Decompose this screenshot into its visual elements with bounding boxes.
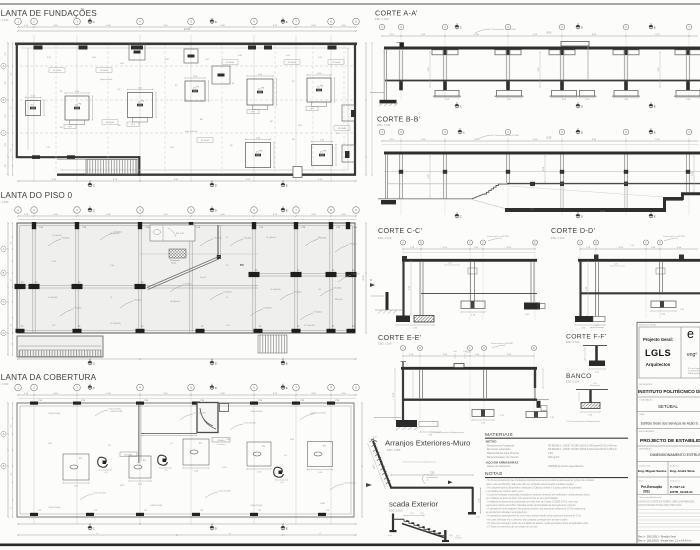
left footing block section A-A'	[380, 100, 397, 104]
F-F' top dims	[591, 327, 603, 329]
leader note section B-B'	[478, 135, 494, 139]
tie beam dashed rows plan 1	[20, 65, 354, 67]
mid footing section D-D'	[651, 301, 676, 308]
F-F' top line	[583, 345, 607, 347]
lower slab section B-B'	[505, 208, 665, 212]
left footing block section B-B'	[381, 200, 396, 204]
svg-text:LG30 (15x30): LG30 (15x30)	[244, 423, 257, 425]
wall: foundations step vertical	[138, 156, 140, 176]
escada step blobs	[406, 520, 409, 522]
F-F' dims	[584, 348, 586, 360]
slab step right 1 section B-B'	[663, 197, 666, 212]
svg-text:engº: engº	[687, 352, 697, 358]
mid stub block section B-B'	[530, 182, 535, 186]
right dim line plan 3	[361, 403, 363, 517]
left dim line 2 plan 3	[12, 403, 14, 517]
svg-text:D: D	[581, 214, 583, 218]
svg-text:C: C	[460, 214, 462, 218]
svg-text:E: E	[286, 526, 288, 530]
svg-text:0.25: 0.25	[593, 383, 597, 385]
cut marks section B-B' top	[458, 128, 465, 134]
sheet top rule	[0, 3, 700, 5]
svg-text:L30x(05): L30x(05)	[62, 238, 70, 240]
construction grid verticals plan 1	[33, 35, 35, 182]
svg-text:Eng. Miguel Santos: Eng. Miguel Santos	[638, 469, 667, 473]
svg-text:0.45: 0.45	[548, 452, 553, 455]
svg-text:L30x(05): L30x(05)	[264, 308, 272, 310]
left wall section A-A'	[383, 49, 385, 100]
svg-text:- No Dimensionamento das Funda: - No Dimensionamento das Fundações consi…	[486, 479, 595, 482]
banco top line	[576, 389, 608, 391]
svg-text:LOCALIZAÇÃO: LOCALIZAÇÃO	[639, 399, 653, 402]
svg-text:C: C	[93, 386, 95, 390]
dim line section C-C'	[403, 248, 535, 250]
svg-text:L30x(05): L30x(05)	[184, 284, 192, 286]
floor level line left section B-B'	[387, 183, 507, 185]
height dims section A-A'	[429, 52, 431, 87]
right dim line plan 1	[365, 43, 367, 175]
muro right dim	[480, 488, 482, 513]
svg-text:C: C	[93, 183, 95, 187]
IS wall end blob piso 0	[217, 255, 221, 259]
slab section A-A'	[384, 47, 700, 50]
left ground line section E-E'	[374, 417, 401, 419]
svg-text:OBRA: OBRA	[639, 413, 645, 416]
svg-text:L6 (30x45): L6 (30x45)	[48, 297, 58, 299]
skylight box plan 3	[197, 403, 218, 433]
construction verticals section A-A'	[400, 31, 402, 100]
footing F1 mid-left	[26, 101, 41, 116]
svg-text:ESC. 1:100: ESC. 1:100	[566, 380, 580, 384]
bottom row wall columns plan 1	[32, 155, 40, 159]
wall: foundations bottom	[57, 173, 356, 175]
annotation leaders piso 0	[48, 239, 61, 246]
mid raised slab section B-B'	[663, 197, 683, 201]
svg-text:PROJECTO DE ESTABILIDADE: PROJECTO DE ESTABILIDADE	[640, 438, 700, 444]
svg-text:- A cota de fundação encontrad: - A cota de fundação encontrada indicada…	[486, 493, 590, 496]
column 1 section D-D'	[595, 261, 597, 316]
roof annotation leaders plan 3	[95, 410, 108, 416]
mid beam right piso 0	[258, 273, 353, 275]
muro foot	[468, 512, 476, 515]
columns piso 0 top row	[32, 222, 36, 229]
svg-text:- As cotas definidas em m deve: - As cotas definidas em m devendo não ca…	[486, 518, 568, 521]
svg-text:i=2%: i=2%	[222, 467, 227, 469]
svg-text:D: D	[581, 130, 583, 134]
column stubs below slab section A-A'	[399, 81, 403, 90]
svg-text:D: D	[215, 386, 217, 390]
footing bottom row 1	[246, 143, 271, 168]
left dim line plan 1	[7, 43, 9, 175]
svg-text:L30x(05): L30x(05)	[74, 308, 82, 310]
grid bubbles section C-C'	[401, 240, 406, 245]
construction verticals section E-E'	[402, 352, 404, 420]
svg-text:C: C	[93, 526, 95, 530]
height dim section E-E'	[394, 369, 396, 420]
svg-text:as pendentes indicadas na arqu: as pendentes indicadas na arquitectura.	[486, 511, 528, 514]
svg-text:ESC. 1:100: ESC. 1:100	[0, 200, 9, 204]
svg-text:L30x(05): L30x(05)	[214, 238, 222, 240]
svg-text:NP EN206-1: C30/37 XC2(P) S2/S: NP EN206-1: C30/37 XC2(P) S2/S3 D.04 Dma…	[548, 444, 617, 447]
svg-text:0.20: 0.20	[453, 351, 457, 353]
outline piso 0	[17, 223, 355, 333]
svg-text:(*) Pormenorização de Arquitec: (*) Pormenorização de Arquitectura	[430, 431, 465, 434]
escada right post	[444, 530, 446, 541]
section cut marks top plan 1	[88, 18, 95, 24]
roof interior wall L plan 3	[138, 405, 140, 463]
svg-text:L30x(05): L30x(05)	[334, 288, 342, 290]
slab section C-C'	[402, 259, 537, 262]
svg-text:L13 (30x45): L13 (30x45)	[110, 323, 121, 325]
floor line section C-C'	[421, 293, 537, 295]
svg-text:C: C	[460, 25, 462, 29]
svg-text:L10 (30x45): L10 (30x45)	[270, 289, 281, 291]
svg-text:- (*) Todos os desenhos de err: - (*) Todos os desenhos de erro estão em…	[486, 525, 538, 528]
svg-text:2.5: 2.5	[320, 152, 323, 154]
footing F2 mid row	[65, 96, 89, 120]
slab section E-E'	[401, 367, 537, 370]
mid column section C-C'	[470, 261, 472, 301]
svg-text:BANCO: BANCO	[566, 373, 592, 380]
svg-text:MATERIAIS: MATERIAIS	[485, 432, 513, 438]
banco footing hatched	[581, 403, 600, 409]
svg-text:2.5: 2.5	[317, 87, 320, 89]
svg-text:CORTE A-A’: CORTE A-A’	[375, 9, 418, 18]
svg-text:C: C	[93, 361, 95, 365]
escada steps	[404, 519, 444, 535]
right raised slab section B-B'	[681, 192, 700, 195]
svg-text:PLANTA DE FUNDAÇÕES: PLANTA DE FUNDAÇÕES	[0, 8, 97, 18]
grid bubbles section A-A'	[379, 24, 384, 29]
svg-text:Dimensionar ver NOTA4: Dimensionar ver NOTA4	[495, 134, 519, 137]
left wall section D-D'	[579, 261, 581, 317]
svg-text:L30x(05): L30x(05)	[352, 274, 360, 276]
grid bubbles section D-D'	[578, 240, 583, 245]
tie beam dashed cols plan 1	[55, 46, 57, 172]
wall left section C-C'	[402, 261, 404, 318]
svg-text:VF1: VF1	[310, 109, 313, 111]
svg-text:CORTE D-D’: CORTE D-D’	[551, 226, 595, 235]
boxed label plan 3 mid	[212, 438, 230, 443]
muro diag dim	[368, 443, 386, 489]
section cut marks top plan 3	[88, 384, 95, 390]
leader note section A-A'	[475, 29, 491, 33]
slab step right 2 section B-B'	[681, 193, 684, 201]
svg-text:L30x(05): L30x(05)	[349, 244, 357, 246]
svg-text:- Os tubos de drenagem serão d: - Os tubos de drenagem serão da simulaçã…	[486, 522, 589, 525]
svg-text:Dimensionar ver NOTA4: Dimensionar ver NOTA4	[491, 342, 514, 345]
svg-text:VF 30x40: VF 30x40	[226, 62, 234, 64]
svg-text:VF1: VF1	[251, 112, 254, 114]
svg-text:PLANTA DA COBERTURA: PLANTA DA COBERTURA	[0, 373, 97, 382]
muro leader	[423, 474, 426, 484]
svg-text:PLANTA DO PISO 0: PLANTA DO PISO 0	[0, 191, 72, 200]
svg-text:L4 (30x45): L4 (30x45)	[266, 237, 276, 239]
svg-text:ESC. 1:100: ESC. 1:100	[389, 509, 403, 513]
svg-text:REQUERENTE: REQUERENTE	[639, 384, 653, 386]
svg-text:CORTE F-F’: CORTE F-F’	[566, 334, 607, 341]
footing right wall upper	[342, 105, 355, 121]
leader note section E-E'	[492, 345, 506, 348]
svg-text:DIMENSIONAMENTO ESTRUTURAL: DIMENSIONAMENTO ESTRUTURAL	[650, 453, 700, 457]
svg-text:2.5: 2.5	[193, 88, 196, 90]
svg-text:D: D	[215, 361, 217, 365]
column 1 section C-C'	[419, 261, 421, 315]
svg-text:11.41: 11.41	[466, 352, 472, 354]
notch rect bottom wall plan 1	[293, 167, 302, 178]
svg-text:ESC. 1:100: ESC. 1:100	[378, 236, 392, 240]
cut marks section A-A' bottom	[455, 102, 462, 108]
svg-text:0.25: 0.25	[476, 517, 480, 519]
height dim section D-D'	[587, 261, 589, 316]
svg-text:VF 30x40: VF 30x40	[100, 70, 108, 72]
svg-text:A: A	[3, 432, 5, 436]
svg-text:Viga de Fund.: Viga de Fund.	[100, 79, 113, 81]
svg-text:- As competências do Empreitei: - As competências do Empreiteiro destaca…	[486, 486, 582, 489]
small box beside skylight plan 3	[220, 404, 229, 412]
grid bubbles section E-E'	[401, 346, 406, 351]
svg-text:LG30 (15x30): LG30 (15x30)	[250, 411, 263, 413]
title block top border	[637, 321, 700, 323]
svg-text:8.59: 8.59	[547, 136, 552, 139]
svg-text:A: A	[3, 64, 5, 68]
right dim line plan 2	[365, 223, 367, 333]
right small arrow plan 3	[366, 483, 372, 487]
svg-text:N: N	[370, 279, 372, 282]
svg-text:L30x(05): L30x(05)	[134, 300, 142, 302]
svg-text:1.50: 1.50	[420, 513, 424, 515]
svg-text:LGLS: LGLS	[645, 348, 671, 358]
dimension line plan 2 top	[18, 215, 356, 217]
svg-text:-AÇO EM ARMADURAS: -AÇO EM ARMADURAS	[485, 460, 518, 464]
slab section D-D'	[578, 259, 700, 262]
floor slab fill piso 0	[17, 223, 355, 333]
svg-text:PROJECTO GERAL: PROJECTO GERAL	[639, 324, 656, 327]
svg-text:D: D	[482, 242, 484, 245]
svg-text:(15x20): (15x20)	[217, 440, 225, 442]
svg-text:C: C	[3, 131, 5, 135]
svg-text:B: B	[3, 464, 5, 468]
svg-text:Observações/Modificações: Observações/Modificações	[639, 496, 662, 499]
columns section E-E'	[419, 369, 421, 398]
wall: foundations right	[354, 43, 356, 176]
construction verticals section D-D'	[579, 245, 581, 318]
stairs section B-B'	[472, 184, 508, 199]
svg-text:E: E	[286, 386, 288, 390]
section cut marks top plan 2	[88, 206, 95, 212]
svg-text:Projecto Geral:: Projecto Geral:	[643, 337, 673, 342]
svg-text:D: D	[581, 104, 583, 108]
svg-text:E: E	[286, 183, 288, 187]
svg-text:COM O PROJECTO DE ARQUITECTURA: COM O PROJECTO DE ARQUITECTURA.	[638, 504, 682, 507]
svg-text:(*): (*)	[427, 480, 429, 482]
svg-text:P2: P2	[240, 263, 244, 267]
svg-text:Rev. b - 29/12/2011 - Revisão: Rev. b - 29/12/2011 - Revisão Geral	[638, 536, 676, 539]
svg-text:Ao Tecnico: Ao Tecnico	[670, 464, 679, 467]
svg-text:E: E	[654, 214, 656, 218]
spiral drain symbols plan 3	[98, 457, 108, 467]
svg-text:Desenho n.º: Desenho n.º	[670, 479, 681, 482]
svg-text:0.25: 0.25	[595, 325, 599, 327]
svg-text:LG30 (15x30): LG30 (15x30)	[219, 491, 232, 493]
svg-text:ESC. 1:100: ESC. 1:100	[378, 342, 392, 346]
svg-text:LG30 (15x30): LG30 (15x30)	[94, 493, 107, 495]
svg-text:elevat.: elevat.	[171, 262, 177, 265]
svg-text:E: E	[286, 208, 288, 212]
beam drops section A-A'	[432, 50, 458, 55]
slab top notch section E-E'	[454, 364, 464, 368]
svg-text:Dimensionar ver NOTA4: Dimensionar ver NOTA4	[487, 235, 510, 238]
right column section C-C'	[530, 261, 532, 302]
svg-text:D: D	[3, 331, 5, 335]
svg-text:vez validade de dono da obra;: vez validade de dono da obra; cota perte…	[486, 497, 559, 500]
svg-text:Classe de resistencia: Classe de resistencia	[487, 465, 510, 468]
svg-text:Fase: Fase	[639, 480, 643, 482]
footing F3 mid row	[128, 93, 153, 118]
escada stringer band	[402, 524, 444, 538]
svg-text:1.50: 1.50	[410, 513, 414, 515]
upper beam right piso 0	[140, 253, 258, 255]
svg-text:ESTB_02-E8-01: ESTB_02-E8-01	[670, 490, 693, 494]
footing mid section C-C'	[461, 301, 485, 309]
footing column1 section C-C'	[414, 316, 434, 323]
left ground line section A-A'	[370, 91, 384, 93]
svg-text:Arranjos Exteriores-Muro: Arranjos Exteriores-Muro	[385, 439, 470, 448]
dims below plan 1	[18, 180, 356, 182]
svg-text:D: D	[483, 347, 485, 350]
mid footings section E-E'	[472, 410, 494, 417]
svg-text:VF1: VF1	[68, 127, 71, 129]
svg-text:Cumeeira: Cumeeira	[217, 444, 227, 446]
logo divider	[680, 327, 682, 378]
left lip section C-C'	[402, 256, 407, 259]
svg-text:Eng. André Silva: Eng. André Silva	[670, 469, 695, 473]
svg-text:LG30 (15x30): LG30 (15x30)	[110, 411, 123, 413]
footing bottom row 2	[312, 145, 333, 166]
svg-text:P-7027-19: P-7027-19	[670, 485, 685, 489]
svg-text:B: B	[3, 98, 5, 102]
svg-text:ESC. 1:200: ESC. 1:200	[387, 448, 401, 452]
svg-text:CORTE B-B’: CORTE B-B’	[377, 115, 421, 124]
grid bubbles section B-B'	[379, 129, 384, 134]
grid bubbles plan 1	[15, 18, 22, 25]
banco wall	[589, 390, 591, 403]
svg-text:LG30 (15x30): LG30 (15x30)	[344, 483, 357, 485]
grid beams vertical piso 0	[32, 223, 34, 333]
dimension line plan 3 top	[18, 394, 356, 396]
svg-text:15.60: 15.60	[600, 211, 606, 213]
columns piso 0 bottom row	[16, 329, 25, 333]
svg-text:LG30 (15x30): LG30 (15x30)	[250, 505, 263, 507]
svg-text:L1 (30x45): L1 (30x45)	[52, 235, 62, 237]
empty revision rules	[637, 509, 700, 511]
svg-text:LG30 (15x30): LG30 (15x30)	[48, 413, 61, 415]
svg-text:E-Mail: geral@engr.pt: E-Mail: geral@engr.pt	[688, 372, 700, 375]
wall: foundations outline top	[15, 42, 357, 45]
muro top tick	[371, 439, 377, 442]
muro diagonal wall	[373, 441, 391, 488]
right ground ext section E-E'	[537, 399, 549, 401]
svg-text:Pav.(*): Pav.(*)	[200, 277, 206, 279]
mid beam left piso 0	[20, 285, 258, 287]
svg-text:ESC. 1:100: ESC. 1:100	[551, 236, 565, 240]
cut marks below plan 3	[88, 524, 95, 530]
boxed labels plan 1 upper	[49, 68, 65, 73]
svg-text:VF 30x40: VF 30x40	[338, 128, 346, 130]
svg-text:8.59: 8.59	[547, 31, 552, 34]
roof outline plan 3	[17, 403, 354, 517]
svg-text:(*) Pormenorização de Arquitec: (*) Pormenorização de Arquitectura	[402, 461, 437, 464]
muro horizontal wall	[390, 487, 473, 489]
svg-text:SETÚBAL: SETÚBAL	[658, 404, 679, 409]
dims below section E-E'	[420, 431, 440, 433]
right arrow marker plan 2	[370, 283, 375, 287]
svg-text:D: D	[215, 526, 217, 530]
stairs piso 0 bottom middle	[258, 335, 287, 353]
svg-text:34.90: 34.90	[184, 27, 191, 31]
IS wall piso 0	[217, 225, 219, 258]
roof drain squares plan 3	[63, 454, 89, 480]
left lip section E-E'	[402, 362, 404, 368]
F-F' footing	[589, 361, 605, 367]
svg-text:Recobrimento Fundacoes: Recobrimento Fundacoes	[487, 444, 515, 447]
footing right wall lower	[342, 145, 355, 162]
left footing section E-E'	[396, 420, 417, 427]
dims below plan 2	[18, 358, 356, 360]
cut marks section A-A' top	[455, 23, 462, 29]
roof top wall columns plan 3	[30, 402, 38, 405]
svg-text:1.00: 1.00	[449, 535, 453, 537]
svg-text:0.40: 0.40	[388, 535, 392, 537]
left grid bubbles plan 3	[1, 431, 6, 436]
small dims above slab E-E'	[454, 354, 456, 360]
left extension outline piso 0	[17, 336, 103, 357]
column stubs to lower slab section B-B'	[560, 183, 562, 208]
svg-text:B: B	[3, 271, 5, 275]
footings section A-A'	[435, 90, 459, 96]
dims below plan 3	[18, 523, 356, 525]
grid bubbles plan 3	[15, 384, 22, 391]
stairs plan 1 bottom-left	[86, 160, 137, 175]
leader note section D-D'	[664, 238, 678, 241]
left wall section E-E'	[402, 369, 404, 420]
svg-text:Elementos enterrados: Elementos enterrados	[487, 448, 511, 451]
dimension line plan 1 top	[18, 26, 356, 28]
svg-text:VF 30x40: VF 30x40	[201, 140, 209, 142]
escada dims	[404, 515, 424, 517]
svg-text:ESC. 1:100: ESC. 1:100	[0, 382, 9, 386]
svg-text:C: C	[460, 104, 462, 108]
svg-text:E: E	[654, 130, 656, 134]
escada left foot	[390, 530, 397, 532]
F-F' wall	[595, 346, 598, 361]
svg-text:espessura máxima de 0.05m; bai: espessura máxima de 0.05m; baixadas serã…	[486, 504, 576, 507]
left dim line 2 plan 2	[12, 223, 14, 355]
top row wall columns plan 1	[34, 46, 43, 50]
muro vertical wall	[472, 487, 474, 513]
right height dim section E-E'	[542, 369, 544, 388]
IS room piso 0	[150, 225, 195, 241]
escada top landing	[393, 518, 404, 520]
svg-text:D: D	[581, 25, 583, 29]
left parapet tick section A-A'	[400, 42, 404, 47]
svg-text:scada Exterior: scada Exterior	[389, 500, 439, 509]
floor slab fill piso 0 left extension	[17, 336, 103, 357]
left dim line plan 2	[7, 223, 9, 355]
sheet bottom rule	[0, 543, 700, 546]
svg-text:2.5: 2.5	[75, 105, 78, 107]
dim line section E-E'	[403, 355, 534, 357]
